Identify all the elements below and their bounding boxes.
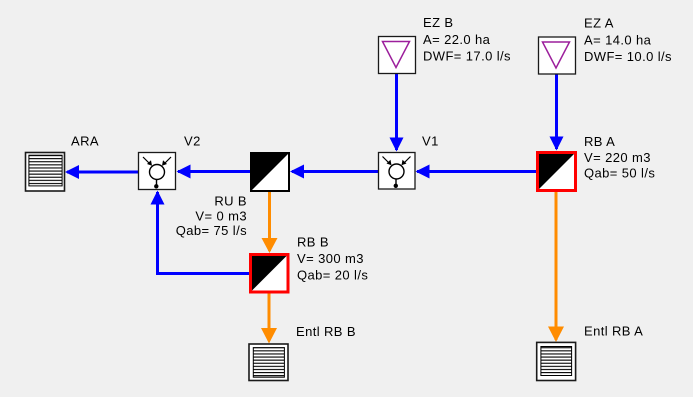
label RB A [584,134,655,181]
outfall Entl RB A [537,342,576,380]
label RU B [176,194,247,239]
label Entl RB B [296,324,356,339]
svg-text:V= 0 m3: V= 0 m3 [195,209,247,224]
wire RU B to V2 [177,165,251,179]
svg-text:V2: V2 [184,134,201,149]
storage basin RB B [251,255,289,293]
wire RB B to V2 [151,191,250,274]
label RB B [297,235,368,283]
svg-text:Qab= 20 l/s: Qab= 20 l/s [297,268,368,283]
svg-text:EZ A: EZ A [584,16,614,31]
wire RB A to Entl RB A [548,192,564,342]
outfall ARA [26,153,65,192]
wire RB B to Entl RB B [261,293,277,344]
label EZ B [423,15,511,64]
svg-text:RU B: RU B [214,194,247,209]
svg-text:Entl RB A: Entl RB A [584,324,643,339]
label ARA [71,134,99,149]
svg-text:RB A: RB A [584,134,615,149]
label V2 [184,134,201,149]
wire EZ A to RB A [550,74,564,151]
storage overflow RU B [251,153,289,191]
svg-text:EZ B: EZ B [423,15,454,30]
svg-text:Qab= 75 l/s: Qab= 75 l/s [176,223,247,238]
divider V1 [379,153,416,190]
svg-text:RB B: RB B [297,235,329,250]
svg-text:Entl RB B: Entl RB B [296,324,356,339]
label EZ A [584,16,672,64]
svg-text:A= 22.0 ha: A= 22.0 ha [423,32,491,47]
catchment EZ B [379,37,416,74]
wire V1 to RU B [290,165,378,179]
svg-text:DWF= 17.0 l/s: DWF= 17.0 l/s [423,49,511,64]
catchment EZ A [539,37,576,74]
storage basin RB A [538,153,576,191]
wire RU B to RB B [262,191,278,253]
svg-text:A= 14.0 ha: A= 14.0 ha [584,33,652,48]
outfall Entl RB B [249,344,288,381]
svg-text:V1: V1 [422,134,439,149]
svg-text:V= 220 m3: V= 220 m3 [584,150,651,165]
label V1 [422,134,439,149]
wire RB A to V1 [416,165,537,179]
svg-text:ARA: ARA [71,134,99,149]
divider V2 [139,153,176,190]
label Entl RB A [584,324,643,339]
wire V2 to ARA [65,165,138,179]
svg-text:V= 300 m3: V= 300 m3 [297,251,364,266]
svg-text:DWF= 10.0 l/s: DWF= 10.0 l/s [584,49,672,64]
svg-text:Qab= 50 l/s: Qab= 50 l/s [584,166,655,181]
wire EZ B to V1 [390,73,404,152]
